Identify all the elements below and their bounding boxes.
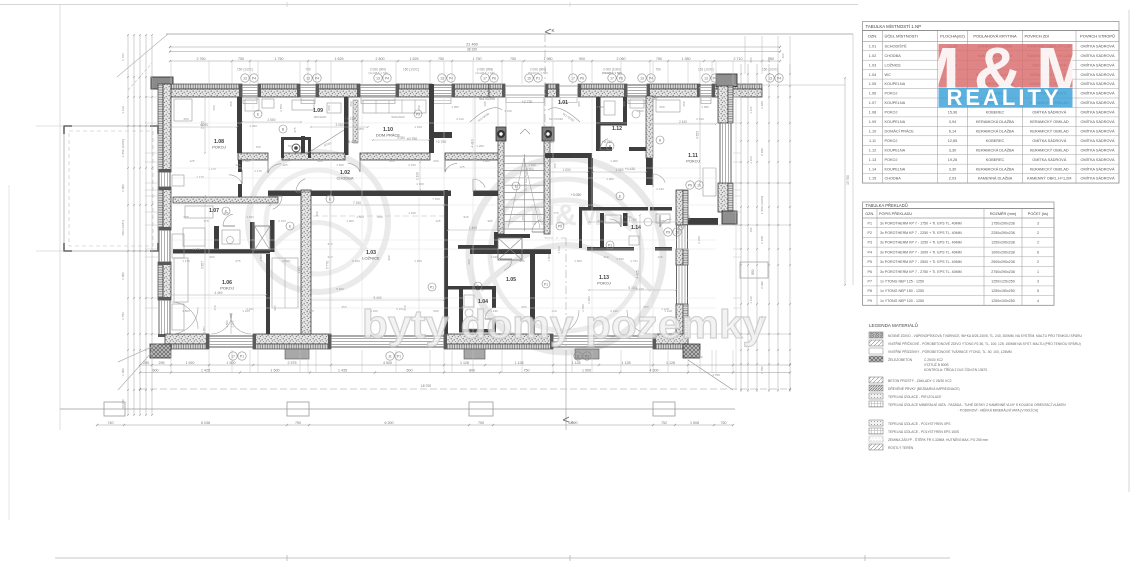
svg-text:1250x150x250: 1250x150x250	[991, 289, 1015, 293]
svg-text:SCHODIŠTĚ: SCHODIŠTĚ	[885, 43, 908, 48]
svg-text:1 250: 1 250	[297, 266, 301, 274]
svg-text:11: 11	[576, 354, 580, 358]
svg-text:OMÍTKA SÁDROVÁ: OMÍTKA SÁDROVÁ	[1081, 139, 1115, 143]
svg-text:900x2020: 900x2020	[391, 115, 405, 119]
svg-text:1.14: 1.14	[631, 225, 641, 231]
svg-text:OMÍTKA SÁDROVÁ: OMÍTKA SÁDROVÁ	[1081, 44, 1115, 48]
svg-text:P5: P5	[868, 260, 872, 264]
svg-text:2 550: 2 550	[279, 104, 283, 112]
corridor bottom wall	[268, 191, 500, 335]
svg-text:3x POROTHERM KP 7 - 1000 + TI.: 3x POROTHERM KP 7 - 1000 + TI. EPS TL. 4…	[880, 250, 962, 254]
svg-text:905: 905	[749, 57, 753, 62]
svg-text:150 (1/2/C): 150 (1/2/C)	[237, 68, 253, 72]
svg-text:KERAMICKÝ OBKLAD: KERAMICKÝ OBKLAD	[1030, 148, 1069, 152]
svg-text:3: 3	[1037, 221, 1039, 225]
stairs treads	[504, 154, 544, 231]
svg-text:5 770: 5 770	[326, 261, 330, 269]
wall above 1.14	[579, 207, 672, 211]
svg-text:5x170/290: 5x170/290	[562, 112, 575, 123]
svg-text:2: 2	[1037, 241, 1039, 245]
svg-text:5x170/290: 5x170/290	[549, 117, 563, 121]
svg-text:900: 900	[327, 105, 331, 110]
watermark text byty domy pozemky	[362, 303, 767, 347]
svg-text:125: 125	[435, 219, 440, 223]
bottom-left diagonal	[118, 344, 158, 390]
svg-text:P1: P1	[397, 354, 401, 358]
svg-text:B: B	[282, 127, 285, 131]
svg-text:VNITŘNÍ PŘÍČKOVÉ - PÓROBETONOV: VNITŘNÍ PŘÍČKOVÉ - PÓROBETONOVÉ ZDIVO YT…	[888, 341, 1081, 346]
svg-text:PLOCHA(m2): PLOCHA(m2)	[940, 34, 965, 39]
svg-text:1 175: 1 175	[208, 167, 216, 171]
svg-text:P3: P3	[868, 241, 872, 245]
svg-text:1.05: 1.05	[506, 277, 516, 283]
svg-text:LOŽNICE: LOŽNICE	[885, 62, 902, 67]
svg-text:1.15: 1.15	[869, 177, 876, 181]
svg-text:C 25/30 XC2: C 25/30 XC2	[924, 358, 943, 362]
svg-text:ÚČEL MÍSTNOSTI: ÚČEL MÍSTNOSTI	[885, 34, 918, 39]
svg-text:KERAMICKÝ OBKLAD: KERAMICKÝ OBKLAD	[1030, 129, 1069, 133]
svg-text:P2: P2	[868, 231, 872, 235]
svg-text:1 190: 1 190	[416, 172, 420, 180]
svg-text:2 150: 2 150	[408, 163, 416, 167]
svg-text:13 600: 13 600	[121, 399, 125, 409]
svg-text:125: 125	[223, 211, 228, 215]
svg-text:2 550: 2 550	[268, 118, 276, 122]
svg-text:1.14: 1.14	[869, 167, 876, 171]
svg-text:1 980: 1 980	[616, 168, 624, 172]
hall walls near stairs	[545, 153, 593, 209]
svg-text:3 857: 3 857	[202, 326, 206, 334]
svg-text:1 920: 1 920	[186, 361, 195, 365]
svg-text:REALITY: REALITY	[946, 85, 1061, 110]
svg-text:OMÍTKA SÁDROVÁ: OMÍTKA SÁDROVÁ	[1081, 148, 1115, 152]
svg-text:1750x290x238: 1750x290x238	[991, 221, 1015, 225]
svg-text:750: 750	[524, 368, 530, 372]
svg-text:3,30: 3,30	[949, 148, 956, 152]
svg-text:13: 13	[376, 76, 380, 80]
svg-text:125: 125	[443, 255, 448, 259]
svg-text:1 435: 1 435	[338, 368, 347, 372]
svg-text:750: 750	[238, 57, 244, 61]
svg-text:1 128: 1 128	[666, 361, 675, 365]
svg-text:1 600: 1 600	[346, 219, 354, 223]
svg-text:13: 13	[704, 76, 708, 80]
svg-text:600: 600	[659, 105, 664, 109]
furniture 1.06 closet	[174, 258, 298, 308]
svg-text:POKOJ: POKOJ	[686, 159, 700, 164]
svg-text:1 128: 1 128	[572, 361, 581, 365]
top-left corner diagonals	[117, 34, 168, 90]
svg-text:1 128: 1 128	[760, 236, 764, 244]
svg-text:2 710: 2 710	[734, 57, 743, 61]
svg-text:K: K	[551, 28, 554, 33]
svg-text:OMÍTKA SÁDROVÁ: OMÍTKA SÁDROVÁ	[1032, 158, 1066, 162]
extension lines vertical	[171, 34, 733, 373]
svg-text:OMÍTKA SÁDROVÁ: OMÍTKA SÁDROVÁ	[1081, 111, 1115, 115]
room 1.14 walls	[579, 210, 672, 251]
svg-text:P1: P1	[544, 282, 548, 286]
svg-text:1 625: 1 625	[410, 57, 419, 61]
table lintels	[863, 202, 1055, 305]
right dimension chains	[736, 34, 853, 392]
watermark circle small	[248, 152, 388, 292]
exterior wall right lower	[676, 190, 718, 334]
fixtures 1.12	[604, 99, 644, 118]
svg-text:2500x290x238: 2500x290x238	[991, 260, 1015, 264]
svg-text:OMÍTKA SÁDROVÁ: OMÍTKA SÁDROVÁ	[1081, 129, 1115, 133]
svg-text:1.09: 1.09	[869, 120, 876, 124]
svg-text:VNITŘNÍ PŘÍZDÍVKY - PÓROBETONO: VNITŘNÍ PŘÍZDÍVKY - PÓROBETONOVÉ TVÁRNIC…	[888, 349, 1012, 354]
svg-text:2 430: 2 430	[679, 120, 687, 124]
svg-text:3: 3	[1037, 279, 1039, 283]
svg-text:750: 750	[721, 421, 727, 425]
svg-text:1.11: 1.11	[869, 139, 876, 143]
svg-text:1250x100x250: 1250x100x250	[991, 299, 1015, 303]
svg-text:P4: P4	[315, 76, 319, 80]
svg-text:800: 800	[469, 368, 475, 372]
svg-text:1 500: 1 500	[271, 368, 280, 372]
svg-text:600: 600	[433, 159, 438, 163]
svg-text:byty domy pozemky: byty domy pozemky	[362, 303, 767, 347]
room labels	[209, 100, 700, 305]
svg-text:1 600: 1 600	[356, 215, 364, 219]
svg-text:150 (1/2/C): 150 (1/2/C)	[121, 220, 125, 235]
furniture 1.11	[656, 100, 716, 196]
svg-text:1000x290x238: 1000x290x238	[991, 250, 1015, 254]
svg-text:1 119: 1 119	[121, 106, 125, 114]
stairwell walls	[470, 97, 580, 254]
svg-text:LOŽNICE: LOŽNICE	[362, 256, 380, 261]
svg-text:KOBEREC: KOBEREC	[986, 139, 1005, 143]
svg-text:200: 200	[143, 361, 149, 365]
svg-text:5 400: 5 400	[374, 296, 382, 300]
svg-text:P9: P9	[868, 299, 872, 303]
svg-text:POČET (ks): POČET (ks)	[1028, 211, 1049, 216]
svg-text:2 975: 2 975	[288, 361, 297, 365]
svg-text:OMÍTKA SÁDROVÁ: OMÍTKA SÁDROVÁ	[1081, 120, 1115, 124]
svg-text:280: 280	[767, 57, 771, 62]
svg-text:15,96: 15,96	[948, 111, 958, 115]
svg-text:±0.750: ±0.750	[407, 137, 417, 141]
svg-text:POVRCH STROPŮ: POVRCH STROPŮ	[1080, 34, 1115, 39]
svg-text:POKOJ: POKOJ	[885, 158, 898, 162]
svg-text:1 750: 1 750	[275, 57, 284, 61]
svg-text:3 050: 3 050	[397, 136, 405, 140]
wall 1.07 area	[173, 197, 278, 254]
svg-text:1 500: 1 500	[636, 109, 644, 113]
svg-text:PODLAHOVÁ KRYTINA: PODLAHOVÁ KRYTINA	[973, 34, 1017, 39]
svg-text:1 508: 1 508	[690, 421, 699, 425]
svg-text:900: 900	[577, 101, 581, 106]
svg-text:18 700: 18 700	[421, 384, 431, 388]
svg-text:1 380: 1 380	[701, 105, 709, 109]
svg-text:450: 450	[341, 305, 346, 309]
svg-text:2250x290x238: 2250x290x238	[991, 231, 1015, 235]
svg-text:+2.720: +2.720	[522, 100, 533, 104]
svg-text:15: 15	[527, 76, 531, 80]
svg-text:1.06: 1.06	[869, 92, 876, 96]
svg-text:OMÍTKA SÁDROVÁ: OMÍTKA SÁDROVÁ	[1081, 167, 1115, 171]
svg-text:+0.750: +0.750	[544, 140, 555, 144]
svg-text:250: 250	[417, 105, 421, 110]
svg-text:+2.720: +2.720	[345, 117, 356, 121]
foundation line and pads	[60, 350, 735, 430]
svg-text:1 250 (1/970): 1 250 (1/970)	[760, 196, 764, 214]
svg-text:150 (1/2/C): 150 (1/2/C)	[403, 68, 419, 72]
svg-text:740: 740	[108, 421, 114, 425]
svg-text:1 760: 1 760	[504, 109, 512, 113]
svg-text:1 880: 1 880	[121, 272, 125, 280]
svg-text:152 (1/2/C): 152 (1/2/C)	[698, 68, 714, 72]
svg-text:5x170/290: 5x170/290	[477, 112, 490, 123]
bottom long line	[139, 384, 791, 390]
svg-text:TEPELNÁ IZOLACE - POLYSTYREN X: TEPELNÁ IZOLACE - POLYSTYREN XPS	[888, 422, 951, 426]
svg-text:E: E	[619, 194, 622, 198]
svg-text:600: 600	[407, 368, 413, 372]
svg-text:3x POROTHERM KP 7 - 1750 + TI.: 3x POROTHERM KP 7 - 1750 + TI. EPS TL. 4…	[880, 221, 962, 225]
fixtures 1.14	[605, 214, 670, 245]
svg-text:P1: P1	[240, 354, 244, 358]
svg-text:675: 675	[183, 215, 188, 219]
svg-text:770: 770	[553, 211, 558, 215]
svg-text:1 625: 1 625	[760, 101, 764, 109]
svg-text:13: 13	[440, 76, 444, 80]
svg-text:POKOJ: POKOJ	[885, 139, 898, 143]
svg-text:250: 250	[521, 215, 525, 220]
svg-text:OZN.: OZN.	[865, 212, 874, 216]
svg-text:2 060: 2 060	[617, 57, 626, 61]
interior circled markers	[254, 110, 703, 291]
svg-text:600: 600	[467, 259, 471, 264]
svg-text:3x POROTHERM KP 7 - 2250 + TI.: 3x POROTHERM KP 7 - 2250 + TI. EPS TL. 4…	[880, 231, 962, 235]
svg-text:1 250: 1 250	[414, 259, 422, 263]
svg-text:905: 905	[519, 259, 524, 263]
logo M&M REALITY	[904, 34, 1106, 110]
svg-text:905: 905	[487, 219, 492, 223]
svg-text:P4: P4	[649, 76, 653, 80]
svg-text:250: 250	[229, 101, 233, 106]
svg-text:4: 4	[1037, 299, 1039, 303]
svg-text:1x YTONG NEP 150 - 1250: 1x YTONG NEP 150 - 1250	[880, 289, 924, 293]
wall 1.12|1.11 vertical	[646, 96, 653, 185]
svg-text:2 800: 2 800	[376, 57, 385, 61]
svg-text:400: 400	[317, 159, 322, 163]
svg-text:6 300: 6 300	[385, 421, 394, 425]
svg-text:17: 17	[231, 354, 235, 358]
svg-text:P9: P9	[678, 224, 682, 228]
legend materials	[869, 322, 1082, 450]
svg-text:POVRCH ZDI: POVRCH ZDI	[1025, 34, 1050, 39]
svg-text:1 380: 1 380	[121, 368, 125, 376]
corridor top wall	[238, 153, 500, 160]
bottom dimension chain 1	[139, 361, 791, 366]
svg-text:OMÍTKA SÁDROVÁ: OMÍTKA SÁDROVÁ	[1081, 92, 1115, 96]
svg-text:2 430: 2 430	[656, 187, 664, 191]
svg-text:P9: P9	[688, 183, 692, 187]
svg-text:P4: P4	[449, 76, 453, 80]
svg-text:250: 250	[682, 101, 686, 106]
exterior wall left	[158, 84, 171, 337]
svg-text:600: 600	[389, 159, 394, 163]
svg-text:1.12: 1.12	[612, 126, 622, 132]
svg-text:KOBEREC: KOBEREC	[986, 111, 1005, 115]
svg-text:E: E	[257, 112, 260, 116]
small utility room 1.09a	[281, 137, 311, 158]
svg-text:150 (1/2/C): 150 (1/2/C)	[762, 68, 778, 72]
svg-text:1 750: 1 750	[712, 373, 720, 377]
svg-text:1.07: 1.07	[209, 208, 219, 214]
svg-text:1 600: 1 600	[336, 163, 344, 167]
svg-text:2 760: 2 760	[197, 57, 206, 61]
svg-text:2 410: 2 410	[456, 117, 464, 121]
svg-text:POKOJ: POKOJ	[220, 286, 234, 291]
svg-text:16: 16	[675, 230, 679, 234]
svg-text:1 175: 1 175	[254, 169, 262, 173]
svg-text:KERAMICKÝ OBKLAD: KERAMICKÝ OBKLAD	[1030, 167, 1069, 171]
svg-text:2 400: 2 400	[201, 121, 205, 129]
svg-text:250: 250	[183, 117, 188, 121]
svg-text:E: E	[329, 197, 332, 201]
svg-text:3 857: 3 857	[201, 261, 205, 269]
svg-text:P6: P6	[868, 270, 872, 274]
svg-text:1 500: 1 500	[557, 246, 561, 254]
svg-text:400: 400	[781, 53, 785, 58]
svg-text:P8: P8	[868, 289, 872, 293]
svg-text:1 750: 1 750	[629, 218, 637, 222]
svg-text:1 125: 1 125	[242, 309, 250, 313]
svg-text:OMÍTKA SÁDROVÁ: OMÍTKA SÁDROVÁ	[1081, 158, 1115, 162]
svg-text:-0.430: -0.430	[347, 140, 357, 144]
svg-text:OMÍTKA SÁDROVÁ: OMÍTKA SÁDROVÁ	[1032, 111, 1066, 115]
svg-text:750: 750	[295, 421, 301, 425]
svg-text:KOBEREC: KOBEREC	[986, 158, 1005, 162]
svg-text:1250x290x238: 1250x290x238	[991, 241, 1015, 245]
svg-text:1 128: 1 128	[622, 361, 631, 365]
svg-text:4 425: 4 425	[636, 270, 640, 278]
svg-text:250: 250	[212, 105, 216, 110]
svg-text:1.09: 1.09	[313, 108, 323, 114]
svg-text:+2.750: +2.750	[436, 140, 447, 144]
svg-text:1.10: 1.10	[869, 129, 876, 133]
svg-text:KERAMICKÁ DLAŽBA: KERAMICKÁ DLAŽBA	[976, 147, 1015, 152]
svg-text:ŽELEZOBETON: ŽELEZOBETON	[888, 357, 913, 362]
svg-text:5: 5	[1037, 289, 1039, 293]
svg-text:POKOJ: POKOJ	[597, 281, 611, 286]
watermark circle big	[469, 158, 663, 352]
svg-text:2 290: 2 290	[760, 148, 764, 156]
svg-text:1 900: 1 900	[526, 167, 534, 171]
svg-text:1250x125x250: 1250x125x250	[991, 279, 1015, 283]
svg-text:12,65: 12,65	[948, 139, 958, 143]
svg-text:13: 13	[243, 76, 247, 80]
svg-text:3,30: 3,30	[949, 167, 956, 171]
svg-text:4 300: 4 300	[650, 368, 659, 372]
svg-text:1 750: 1 750	[616, 257, 624, 261]
svg-text:P1: P1	[536, 76, 540, 80]
svg-text:3x POROTHERM KP 7 - 2750 + TI.: 3x POROTHERM KP 7 - 2750 + TI. EPS TL. 4…	[880, 270, 962, 274]
svg-text:- PODKROVÍ - MĚKKÁ MINERÁLNÍ V: - PODKROVÍ - MĚKKÁ MINERÁLNÍ VATA (V ROL…	[958, 408, 1038, 413]
bottom-most dimension chain	[96, 421, 734, 426]
svg-text:KOUPELNA: KOUPELNA	[885, 82, 906, 86]
svg-text:198: 198	[483, 101, 487, 106]
svg-text:KAMENNÝ OBKL.H=1,2M: KAMENNÝ OBKL.H=1,2M	[1027, 177, 1071, 181]
svg-text:1 190: 1 190	[408, 211, 416, 215]
svg-text:N=17.5x175x280: N=17.5x175x280	[524, 169, 528, 191]
svg-text:1 225: 1 225	[749, 106, 753, 114]
door arcs	[171, 139, 671, 334]
svg-text:P1: P1	[430, 285, 434, 289]
svg-text:750: 750	[655, 68, 661, 72]
left dimension chains	[121, 34, 153, 416]
svg-text:905/2020: 905/2020	[314, 115, 327, 119]
svg-text:2: 2	[1037, 260, 1039, 264]
fixtures 1.04 1.05	[464, 295, 496, 329]
svg-text:ZEMINA ZÁSYP - ŠTĚRK FR 0-32MM: ZEMINA ZÁSYP - ŠTĚRK FR 0-32MM, HUTNĚNÍ …	[888, 437, 988, 442]
svg-text:P9: P9	[416, 112, 420, 116]
svg-text:1.08: 1.08	[869, 111, 876, 115]
svg-text:1: 1	[1037, 270, 1039, 274]
svg-text:3 050: 3 050	[356, 127, 364, 131]
svg-text:400: 400	[749, 227, 753, 232]
svg-text:1.15: 1.15	[561, 154, 571, 160]
svg-text:P7: P7	[868, 279, 872, 283]
svg-text:4 410: 4 410	[471, 139, 475, 147]
internal walls top rooms	[237, 84, 452, 197]
svg-text:TABULKA PŘEKLADŮ: TABULKA PŘEKLADŮ	[866, 203, 908, 208]
svg-text:KOUPELNA: KOUPELNA	[885, 101, 906, 105]
svg-text:LEGENDA MATERIÁLŮ: LEGENDA MATERIÁLŮ	[869, 322, 918, 328]
svg-text:ROSTLÝ TERÉN: ROSTLÝ TERÉN	[888, 445, 914, 450]
svg-text:2 150: 2 150	[278, 219, 286, 223]
top-right corner dimension verticals	[745, 36, 790, 74]
svg-text:11: 11	[388, 354, 392, 358]
svg-text:KERAMICKÁ DLAŽBA: KERAMICKÁ DLAŽBA	[976, 166, 1015, 171]
bottom-right diagonal + box	[688, 262, 768, 390]
svg-text:P4: P4	[868, 250, 872, 254]
bottom dimension chain 2	[139, 368, 791, 373]
svg-text:750: 750	[510, 57, 516, 61]
svg-text:4 505: 4 505	[696, 131, 700, 139]
svg-text:2: 2	[1037, 231, 1039, 235]
svg-text:1 280: 1 280	[476, 144, 484, 148]
svg-text:1 500: 1 500	[547, 254, 551, 262]
svg-text:1 750: 1 750	[121, 312, 125, 320]
svg-text:OMÍTKA SÁDROVÁ: OMÍTKA SÁDROVÁ	[1081, 101, 1115, 105]
svg-text:6 090: 6 090	[569, 421, 578, 425]
svg-text:5 400: 5 400	[336, 287, 344, 291]
svg-text:3x POROTHERM KP 7 - 1250 + TI.: 3x POROTHERM KP 7 - 1250 + TI. EPS TL. 4…	[880, 241, 962, 245]
svg-text:295: 295	[159, 361, 165, 365]
svg-text:P4: P4	[252, 76, 256, 80]
svg-text:21 400: 21 400	[466, 43, 478, 47]
table rooms	[863, 22, 1120, 184]
svg-text:NOSNÉ ZDIVO - VÁPENOPÍSKOVÁ TV: NOSNÉ ZDIVO - VÁPENOPÍSKOVÁ TVÁRNICE, 98…	[888, 333, 1082, 338]
svg-text:17: 17	[610, 76, 614, 80]
svg-text:900: 900	[622, 101, 626, 106]
interior dimension texts	[182, 101, 709, 334]
top window sublabels	[237, 68, 778, 76]
svg-text:WC: WC	[885, 73, 892, 77]
svg-text:KERAMICKÁ DLAŽBA: KERAMICKÁ DLAŽBA	[976, 128, 1015, 133]
svg-text:600: 600	[377, 215, 382, 219]
svg-text:1 150: 1 150	[414, 125, 422, 129]
svg-text:OMÍTKA SÁDROVÁ: OMÍTKA SÁDROVÁ	[1081, 177, 1115, 181]
svg-text:1 128: 1 128	[460, 361, 469, 365]
svg-text:750: 750	[438, 57, 444, 61]
svg-text:4 860: 4 860	[182, 309, 190, 313]
svg-text:OMÍTKA SÁDROVÁ: OMÍTKA SÁDROVÁ	[1032, 139, 1066, 143]
svg-text:700: 700	[255, 145, 260, 149]
